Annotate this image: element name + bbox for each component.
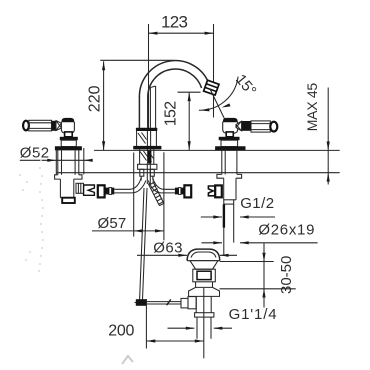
svg-text:30-50: 30-50 <box>278 256 295 294</box>
svg-text:MAX 45: MAX 45 <box>304 83 320 132</box>
svg-text:Ø26x19: Ø26x19 <box>258 222 315 239</box>
svg-text:Ø57: Ø57 <box>98 215 127 232</box>
svg-text:G1/2: G1/2 <box>240 195 274 212</box>
svg-text:G1'1/4: G1'1/4 <box>229 306 278 323</box>
svg-text:152: 152 <box>163 101 180 127</box>
svg-text:Ø52: Ø52 <box>20 144 50 161</box>
svg-text:200: 200 <box>108 322 134 339</box>
svg-text:123: 123 <box>161 12 188 31</box>
svg-text:220: 220 <box>87 85 104 112</box>
